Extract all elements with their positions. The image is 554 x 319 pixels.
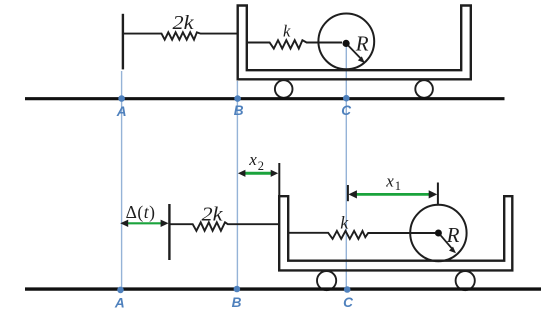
node B top: [234, 95, 244, 118]
svg-text:R: R: [355, 32, 369, 56]
cart body top: [238, 6, 471, 80]
svg-text:B: B: [232, 295, 242, 310]
spring 2k bottom: [169, 222, 278, 231]
svg-text:Δ(t): Δ(t): [126, 202, 156, 222]
roller R bottom: [410, 205, 466, 261]
node B bottom: [232, 286, 242, 310]
wheel top-right: [415, 80, 433, 98]
measurement arrow x2: [238, 170, 278, 177]
tick x1 right: [437, 183, 439, 205]
node A bottom: [114, 287, 125, 311]
wall anchor top: [122, 14, 124, 70]
node C top: [341, 95, 351, 118]
svg-text:A: A: [116, 104, 127, 119]
svg-text:2: 2: [258, 159, 264, 173]
label 2k bottom: [202, 203, 224, 225]
svg-text:C: C: [341, 103, 351, 118]
label R bottom: [446, 223, 460, 247]
svg-text:C: C: [343, 295, 353, 310]
label x1: [385, 171, 401, 193]
reference line B: [236, 81, 238, 289]
label 2k top: [173, 12, 195, 34]
spring k top: [247, 40, 342, 48]
svg-text:1: 1: [395, 179, 401, 193]
roller R top: [318, 14, 374, 70]
wall anchor bottom: [168, 204, 170, 260]
ground line bottom: [25, 287, 541, 290]
svg-text:x: x: [385, 171, 394, 190]
node C bottom: [343, 286, 353, 310]
svg-text:k: k: [283, 22, 291, 41]
spring 2k top: [123, 32, 237, 39]
svg-text:B: B: [234, 103, 244, 118]
label delta(t): [126, 202, 156, 222]
node A top: [116, 95, 127, 119]
label R top: [355, 32, 369, 56]
tick x1 left: [347, 185, 349, 201]
measurement arrow x1: [348, 190, 437, 198]
extension line x2: [278, 163, 280, 196]
label x2: [248, 150, 264, 173]
svg-text:k: k: [340, 213, 349, 233]
wheel bottom-right: [456, 271, 475, 290]
ground line top: [25, 97, 505, 100]
wheel top-left: [275, 80, 293, 98]
svg-text:x: x: [248, 150, 257, 169]
svg-text:2k: 2k: [202, 203, 224, 225]
svg-text:A: A: [114, 296, 125, 311]
label k bottom: [340, 213, 349, 233]
label k top: [283, 22, 291, 41]
svg-text:R: R: [446, 223, 460, 247]
reference line C: [345, 43, 347, 290]
spring k bottom: [288, 231, 435, 239]
wheel bottom-left: [317, 271, 336, 290]
cart body bottom: [279, 196, 512, 270]
svg-text:2k: 2k: [173, 12, 195, 34]
reference line A: [121, 71, 123, 290]
measurement arrow delta(t): [120, 220, 168, 227]
